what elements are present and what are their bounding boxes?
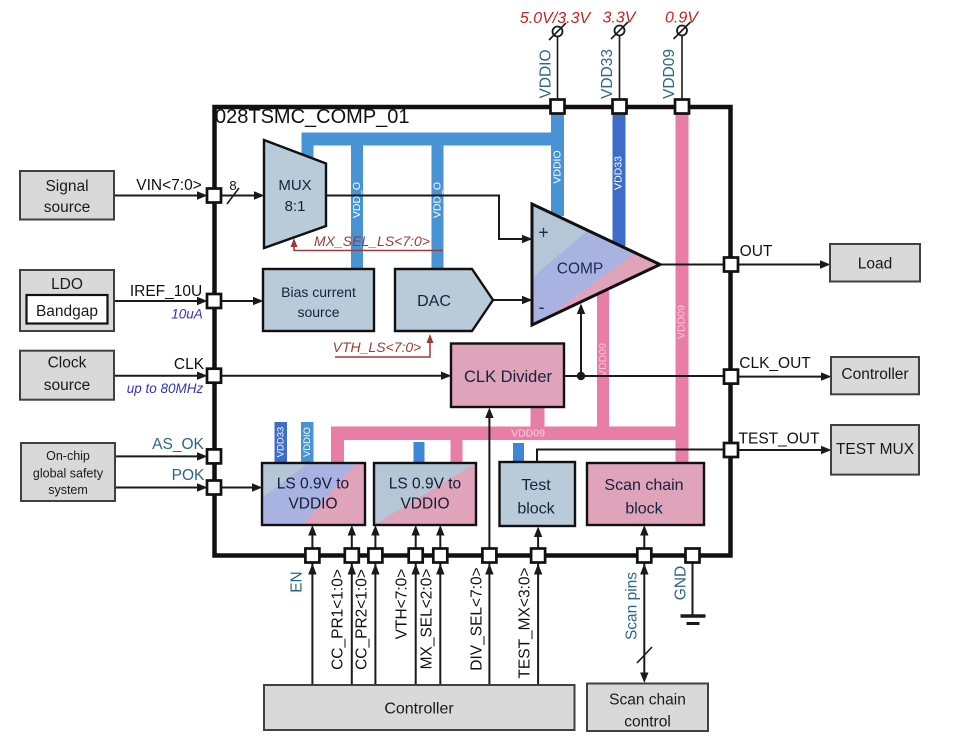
wire CC_PR2 up to LS2 — [374, 533, 376, 549]
arrow CC_PR1 into LS1 — [348, 525, 356, 536]
svg-text:block: block — [517, 501, 555, 518]
pin CLK — [207, 369, 221, 383]
svg-text:source: source — [44, 199, 91, 216]
junction dot at CLK Divider output — [577, 372, 585, 380]
svg-text:VDD09: VDD09 — [511, 428, 545, 440]
arrow Scan pins into Scan chain control — [640, 673, 648, 684]
pin DIV_SEL — [482, 549, 496, 563]
svg-text:5.0V/3.3V: 5.0V/3.3V — [520, 10, 592, 27]
svg-text:On-chip: On-chip — [46, 449, 90, 463]
arrow DIV_SEL into pin from below — [485, 564, 493, 575]
svg-text:Clock: Clock — [48, 355, 87, 372]
wire VDD09 stub to CLK Divider — [531, 407, 545, 427]
wire VTH down to Controller — [415, 563, 417, 686]
pin MX_SEL — [433, 549, 447, 563]
pin CLK_OUT — [724, 370, 738, 384]
comparator U3 COMP — [532, 204, 660, 325]
pin VIN — [207, 189, 221, 203]
svg-text:TEST_MX<3:0>: TEST_MX<3:0> — [517, 567, 534, 678]
wire VDD09 main vertical from pin — [676, 107, 689, 463]
svg-text:VDD33: VDD33 — [276, 427, 287, 458]
arrow AS_OK into pin — [197, 452, 208, 460]
svg-text:8: 8 — [229, 178, 236, 193]
arrow EN into LS1 — [308, 525, 316, 536]
arrow clock branch into COMP bottom — [577, 304, 585, 315]
svg-text:Test: Test — [521, 477, 551, 494]
box CLK Divider — [451, 344, 564, 408]
wire VDDIO stub above LS2 — [414, 442, 425, 463]
wire EN down to Controller — [311, 563, 313, 686]
arrow VTH_LS into DAC — [427, 334, 434, 343]
wire VDDIO top horizontal bus — [302, 133, 565, 146]
svg-text:LS 0.9V to: LS 0.9V to — [277, 476, 349, 493]
box Load — [830, 244, 920, 282]
wire MX_SEL_LS select — [294, 245, 443, 251]
svg-text:VDD_O: VDD_O — [351, 182, 363, 218]
arrow CC_PR2 into pin from below — [371, 564, 379, 575]
svg-text:+: + — [538, 223, 549, 243]
svg-text:EN: EN — [289, 571, 306, 593]
wire TEST_MX down to Controller — [537, 563, 539, 686]
svg-text:CC_PR1<1:0>: CC_PR1<1:0> — [330, 569, 347, 670]
arrow DAC out into COMP minus — [522, 296, 533, 304]
svg-text:Controller: Controller — [841, 366, 908, 383]
svg-text:Scan chain: Scan chain — [604, 477, 683, 494]
box Scan chain control — [587, 684, 708, 732]
svg-text:VTH_LS<7:0>: VTH_LS<7:0> — [333, 339, 422, 355]
ARROWHEADS — [197, 191, 832, 683]
svg-text:VIN<7:0>: VIN<7:0> — [136, 177, 202, 194]
bus slash on VIN wire — [227, 188, 239, 204]
svg-text:CLK_OUT: CLK_OUT — [739, 355, 811, 372]
terminal 3.3V — [611, 22, 628, 100]
wire VDD09 drop to LS2 — [451, 438, 463, 463]
svg-text:VDD33: VDD33 — [613, 156, 625, 190]
arrow TEST_MX into Test block — [534, 527, 542, 538]
wire VDD33 main vertical from pin — [613, 107, 626, 246]
pin CC_PR2 — [368, 549, 382, 563]
box TEST MUX — [831, 425, 919, 475]
terminal 5.0V/3.3V — [549, 23, 566, 100]
chip border 028TSMC_COMP_01 — [215, 107, 731, 556]
wire DAC output to COMP minus — [493, 299, 523, 301]
wire POK — [115, 487, 199, 489]
wire Scan pins up to Scan chain block — [643, 533, 645, 549]
svg-text:POK: POK — [172, 467, 205, 484]
wire VDDIO drop to DAC — [432, 145, 444, 269]
arrow EN into pin from below — [308, 564, 316, 575]
svg-text:VDD_O: VDD_O — [432, 182, 444, 218]
svg-text:028TSMC_COMP_01: 028TSMC_COMP_01 — [215, 106, 410, 128]
arrow Scan pins into pin from below — [640, 564, 648, 575]
wire TEST_OUT from Test block — [537, 450, 724, 462]
svg-text:DAC: DAC — [417, 293, 451, 310]
arrow MX_SEL into pin from below — [436, 564, 444, 575]
arrow Scan pins into Scan chain block — [640, 525, 648, 536]
arrow VTH into pin from below — [412, 564, 420, 575]
arrow VIN into MUX — [254, 191, 265, 199]
arrow OUT into Load — [820, 260, 831, 268]
box LS2 level shifter — [374, 463, 476, 525]
terminal 0.9V — [674, 22, 691, 100]
arrow VTH into LS2 — [412, 525, 420, 536]
svg-text:8:1: 8:1 — [285, 198, 306, 215]
svg-text:LDO: LDO — [51, 276, 83, 293]
box LS1 level shifter — [262, 463, 365, 525]
wire VDDIO stub above Test block — [513, 443, 524, 463]
svg-text:source: source — [44, 377, 91, 394]
svg-text:Signal: Signal — [45, 178, 88, 195]
box Test block — [500, 462, 576, 526]
box Scan chain block — [587, 463, 704, 525]
svg-text:CC_PR2<1:0>: CC_PR2<1:0> — [354, 569, 371, 670]
pin VDD09 — [675, 100, 689, 114]
wire AS_OK — [115, 455, 199, 457]
wire VDDIO drop to Bias current source — [351, 145, 363, 269]
pin OUT — [724, 258, 738, 272]
svg-text:source: source — [297, 304, 339, 320]
wire MUX output to COMP plus — [326, 196, 523, 240]
svg-text:Bandgap: Bandgap — [36, 303, 98, 320]
svg-text:MX_SEL<2:0>: MX_SEL<2:0> — [419, 569, 436, 670]
wire VDD09 stripe under COMP — [597, 290, 609, 440]
wire TEST_MX up to Test block — [537, 534, 539, 549]
arrow CLK_OUT into Controller — [821, 372, 832, 380]
arrow MX_SEL_LS into MUX — [291, 238, 298, 247]
wire VIN inside chip — [221, 195, 256, 197]
arrow MX_SEL into LS2 — [436, 525, 444, 536]
wire OUT pin to Load — [738, 264, 821, 266]
wire VDD09 horizontal bus — [331, 427, 689, 441]
wire DIV_SEL up to CLK Divider — [488, 415, 490, 549]
pin EN — [305, 549, 319, 563]
svg-text:VDDIO: VDDIO — [288, 496, 337, 513]
wire VTH up to LS2 — [415, 533, 417, 549]
svg-text:block: block — [625, 501, 663, 518]
wire CLK Divider to CLK_OUT pin — [564, 375, 724, 377]
box Signal source — [20, 171, 114, 220]
wire Scan pins down to Scan chain control — [643, 563, 645, 675]
svg-text:control: control — [624, 714, 671, 731]
bus slash on Scan pins wire — [637, 647, 652, 663]
svg-text:IREF_10U: IREF_10U — [130, 283, 202, 300]
wire VDD33 tag stub above LS1 — [275, 422, 288, 463]
svg-text:3.3V: 3.3V — [603, 10, 637, 27]
svg-text:VDD09: VDD09 — [597, 343, 609, 377]
svg-text:CLK Divider: CLK Divider — [464, 368, 553, 386]
mux U1 MUX 8:1 — [264, 140, 326, 248]
svg-text:Scan pins: Scan pins — [624, 572, 641, 640]
svg-text:VDDIO: VDDIO — [302, 427, 313, 457]
wire clock branch up to COMP — [580, 312, 582, 376]
pin IREF_10U — [207, 294, 221, 308]
wire VTH_LS select — [335, 341, 430, 357]
wire GND down — [692, 563, 694, 616]
wire POK inside chip — [221, 487, 254, 489]
arrow CLK into pin — [197, 372, 208, 380]
wire MX_SEL up to LS2 — [439, 533, 441, 549]
svg-text:10uA: 10uA — [171, 307, 203, 322]
svg-text:MX_SEL_LS<7:0>: MX_SEL_LS<7:0> — [314, 233, 430, 249]
svg-text:Load: Load — [858, 256, 892, 273]
pin VDD33 — [613, 100, 627, 114]
svg-text:CLK: CLK — [174, 356, 205, 373]
svg-text:Controller: Controller — [384, 701, 454, 718]
svg-text:DIV_SEL<7:0>: DIV_SEL<7:0> — [469, 567, 486, 670]
box Clock source — [20, 351, 114, 400]
pin VDDIO — [551, 100, 565, 114]
arrow TEST_OUT into TEST MUX — [821, 446, 832, 454]
box Bandgap — [27, 295, 108, 324]
svg-text:TEST MUX: TEST MUX — [836, 441, 915, 458]
arrow MUX out into COMP plus — [522, 235, 533, 243]
wire IREF_10U from LDO — [114, 300, 199, 302]
pin VTH — [409, 549, 423, 563]
arrow POK into pin — [197, 483, 208, 491]
svg-text:VDDIO: VDDIO — [552, 150, 564, 183]
wire CC_PR1 down to Controller — [351, 563, 353, 686]
wire CLK_OUT pin to Controller — [738, 376, 822, 378]
arrow IREF into Bias — [253, 297, 264, 305]
pin Scan pins — [637, 549, 651, 563]
wire DIV_SEL down to Controller — [488, 563, 490, 686]
svg-text:COMP: COMP — [557, 261, 604, 278]
svg-text:MUX: MUX — [278, 177, 311, 194]
dac U2 DAC — [395, 269, 493, 331]
arrow POK into LS1 — [252, 483, 263, 491]
wire CLK from Clock source — [114, 375, 199, 377]
wire VDDIO tag stub above LS1 — [301, 422, 314, 463]
svg-text:VDD33: VDD33 — [599, 49, 616, 99]
arrow VIN into pin — [197, 191, 208, 199]
box On-chip global safety system — [21, 443, 115, 501]
wire EN up to LS1 — [311, 533, 313, 549]
svg-text:up to 80MHz: up to 80MHz — [127, 381, 204, 396]
wire VDDIO bus leg into MUX — [302, 133, 314, 160]
svg-text:AS_OK: AS_OK — [152, 436, 204, 453]
wire CC_PR1 up to LS1 — [351, 533, 353, 549]
wire COMP output to OUT pin — [660, 264, 724, 266]
svg-text:Bias current: Bias current — [281, 284, 356, 300]
ground symbol GND — [681, 616, 706, 624]
box LDO — [20, 270, 114, 331]
wire TEST_OUT pin to TEST MUX — [738, 449, 822, 451]
box Controller right — [831, 357, 919, 394]
arrow TEST_MX into pin from below — [534, 564, 542, 575]
pin TEST_OUT — [724, 443, 738, 457]
arrow CC_PR1 into pin from below — [348, 564, 356, 575]
svg-text:TEST_OUT: TEST_OUT — [739, 431, 820, 448]
svg-text:global safety: global safety — [33, 467, 104, 481]
PINS — [207, 100, 738, 563]
wire CC_PR2 down to Controller — [374, 563, 376, 686]
wire CLK inside chip — [221, 375, 443, 377]
svg-text:GND: GND — [673, 566, 690, 600]
svg-text:0.9V: 0.9V — [665, 10, 699, 27]
wire VDDIO main vertical from pin — [551, 107, 564, 216]
arrow CC_PR2 into LS2 — [371, 525, 379, 536]
svg-text:system: system — [48, 483, 88, 497]
svg-text:VDDIO: VDDIO — [538, 49, 555, 98]
wire VIN from Signal source — [114, 195, 199, 197]
wire VDD09 drop to LS1 — [331, 427, 344, 464]
box Bias current source — [263, 269, 374, 331]
svg-text:LS 0.9V to: LS 0.9V to — [389, 476, 461, 493]
svg-text:VDD09: VDD09 — [661, 49, 678, 99]
wire MX_SEL down to Controller — [439, 563, 441, 686]
pin GND — [686, 549, 700, 563]
pin TEST_MX — [531, 549, 545, 563]
arrow IREF into pin — [197, 297, 208, 305]
pin AS_OK — [207, 449, 221, 463]
pin POK — [207, 481, 221, 495]
arrow CLK into CLK Divider — [441, 372, 452, 380]
svg-text:Scan chain: Scan chain — [609, 692, 686, 709]
pin CC_PR1 — [345, 549, 359, 563]
wire IREF inside chip — [221, 300, 255, 302]
svg-text:VTH<7:0>: VTH<7:0> — [394, 569, 411, 640]
svg-text:-: - — [539, 297, 545, 317]
svg-text:VDD09: VDD09 — [676, 305, 688, 339]
svg-text:VDDIO: VDDIO — [400, 496, 449, 513]
svg-text:OUT: OUT — [740, 243, 773, 260]
box Controller bottom — [264, 685, 575, 730]
arrow DIV_SEL into CLK Divider — [485, 408, 493, 419]
